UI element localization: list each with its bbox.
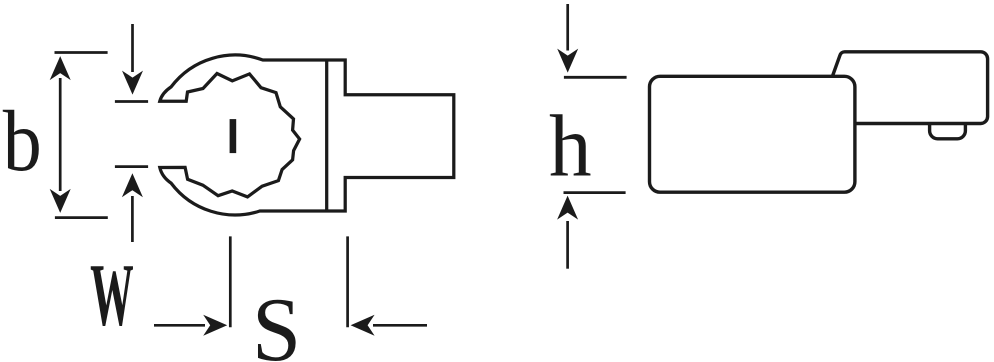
dimension b: bottom tick: [55, 216, 108, 219]
center mark I: [230, 119, 237, 153]
open-ring spanner head outline (front view) with 12-point serration and tang: [160, 55, 454, 215]
dimension S: right extension line: [346, 236, 349, 327]
svg-text:S: S: [252, 280, 301, 362]
dimension h: top arrow (down): [566, 4, 569, 51]
dimension b: double arrow line: [59, 78, 62, 191]
svg-text:W: W: [90, 246, 134, 345]
joint line between ring and boss: [325, 60, 328, 211]
dimension W: top arrow (down): [131, 24, 134, 72]
svg-text:b: b: [3, 93, 42, 189]
svg-text:h: h: [549, 97, 592, 195]
side view: release button tab: [930, 122, 966, 139]
dimension b: down arrowhead: [50, 189, 71, 213]
dimension S: left extension line: [229, 236, 232, 327]
side view: head body (rounded rectangle): [650, 76, 855, 192]
dimension h: bottom arrow (up): [566, 221, 569, 269]
dimension b: up arrowhead: [50, 56, 71, 80]
dimension W: top tick: [115, 100, 148, 103]
dimension h: bottom tick: [564, 191, 626, 194]
dimension S: right arrow (pointing left): [373, 324, 427, 327]
dimension b: top tick: [55, 51, 108, 54]
side view: square-drive tang plate: [829, 52, 987, 124]
dimension W: bottom tick: [115, 165, 148, 168]
dimension S: left arrow (pointing right): [154, 324, 205, 327]
dimension h: top tick: [564, 76, 627, 79]
dimension W: bottom arrow (up): [131, 196, 134, 242]
